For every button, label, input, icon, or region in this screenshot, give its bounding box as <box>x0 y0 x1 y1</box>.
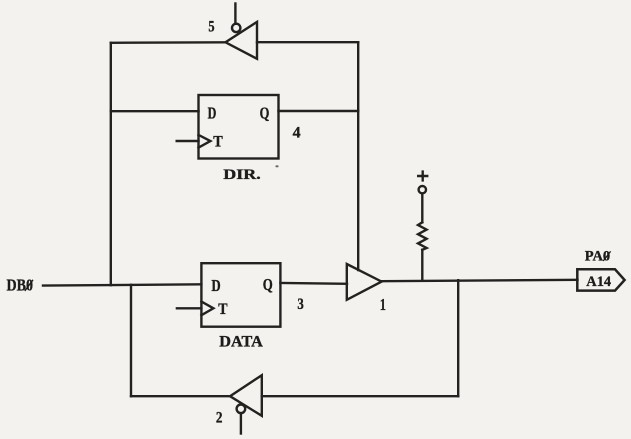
resistor R1 zigzag body <box>418 222 427 250</box>
svg-text:Q: Q <box>263 275 273 294</box>
wire: buffer 1 output to PA0 terminal <box>382 280 578 281</box>
wire: right feedback vertical from output node down <box>457 280 459 396</box>
wire: enable control into buffer U5 <box>234 4 236 24</box>
svg-text:DIR.: DIR. <box>223 167 261 183</box>
resistor R1 upper lead <box>421 193 423 222</box>
wire: DIR Q output to right vertical <box>279 110 359 112</box>
wire: bottom horizontal, right segment to buffer 2 input <box>262 395 458 397</box>
enable bubble of buffer U5 <box>232 24 240 32</box>
svg-text:5: 5 <box>208 19 214 36</box>
wire: enable control from buffer U2 down <box>240 413 242 433</box>
wire: DATA Q to buffer 1 input <box>280 282 347 285</box>
wire: DIR D input <box>111 110 199 112</box>
svg-text:Q: Q <box>260 103 270 122</box>
flip-flop DIR (box) <box>199 95 279 159</box>
clock chevron of DATA T input <box>201 302 213 316</box>
slash of zero in DB0 <box>25 280 33 291</box>
terminal PA0 / A14 (arrow box) <box>577 269 624 290</box>
enable bubble of buffer U2 <box>237 405 246 414</box>
buffer U5 (tri-state inverting-enable buffer, points left) <box>226 22 258 59</box>
svg-text:2: 2 <box>216 410 223 427</box>
speck (scan artifact) near DIR label <box>275 165 278 167</box>
wire: DB0 input to DATA D (main horizontal, left) <box>43 284 201 285</box>
svg-text:D: D <box>208 104 217 123</box>
svg-text:1: 1 <box>380 295 386 314</box>
buffer U1 (tri-state output buffer, points right) <box>347 264 382 300</box>
wire: top horizontal, left segment to buffer 5 output apex <box>111 41 226 44</box>
wire: top horizontal, right segment from buffer 5 input <box>257 41 358 43</box>
resistor R1 (pull-up) lower lead <box>421 250 423 281</box>
slash of zero in PA0 <box>603 251 610 261</box>
buffer U2 (tri-state inverting-enable buffer, points left) <box>230 375 262 416</box>
svg-text:A14: A14 <box>586 274 611 290</box>
wire: bottom horizontal, left segment from buffer 2 output <box>131 395 230 397</box>
svg-text:T: T <box>213 133 223 150</box>
wire: left vertical riser (DB0 node up to top loop) <box>110 43 112 285</box>
clock chevron of DIR T input <box>199 135 211 148</box>
svg-text:4: 4 <box>293 124 301 141</box>
svg-text:DATA: DATA <box>219 333 263 350</box>
supply plus symbol <box>418 172 427 181</box>
svg-text:3: 3 <box>297 296 303 313</box>
flip-flop DATA (box) <box>201 263 280 327</box>
wire: DIR T input stub <box>177 140 199 142</box>
svg-text:D: D <box>211 276 220 295</box>
wire: lower-left vertical (main node down to bottom loop) <box>130 285 132 396</box>
svg-text:T: T <box>218 301 228 318</box>
wire: right vertical from top loop down to buffer 1 enable <box>357 42 359 270</box>
supply terminal circle <box>419 186 426 193</box>
wire: DATA T input stub <box>177 307 202 309</box>
